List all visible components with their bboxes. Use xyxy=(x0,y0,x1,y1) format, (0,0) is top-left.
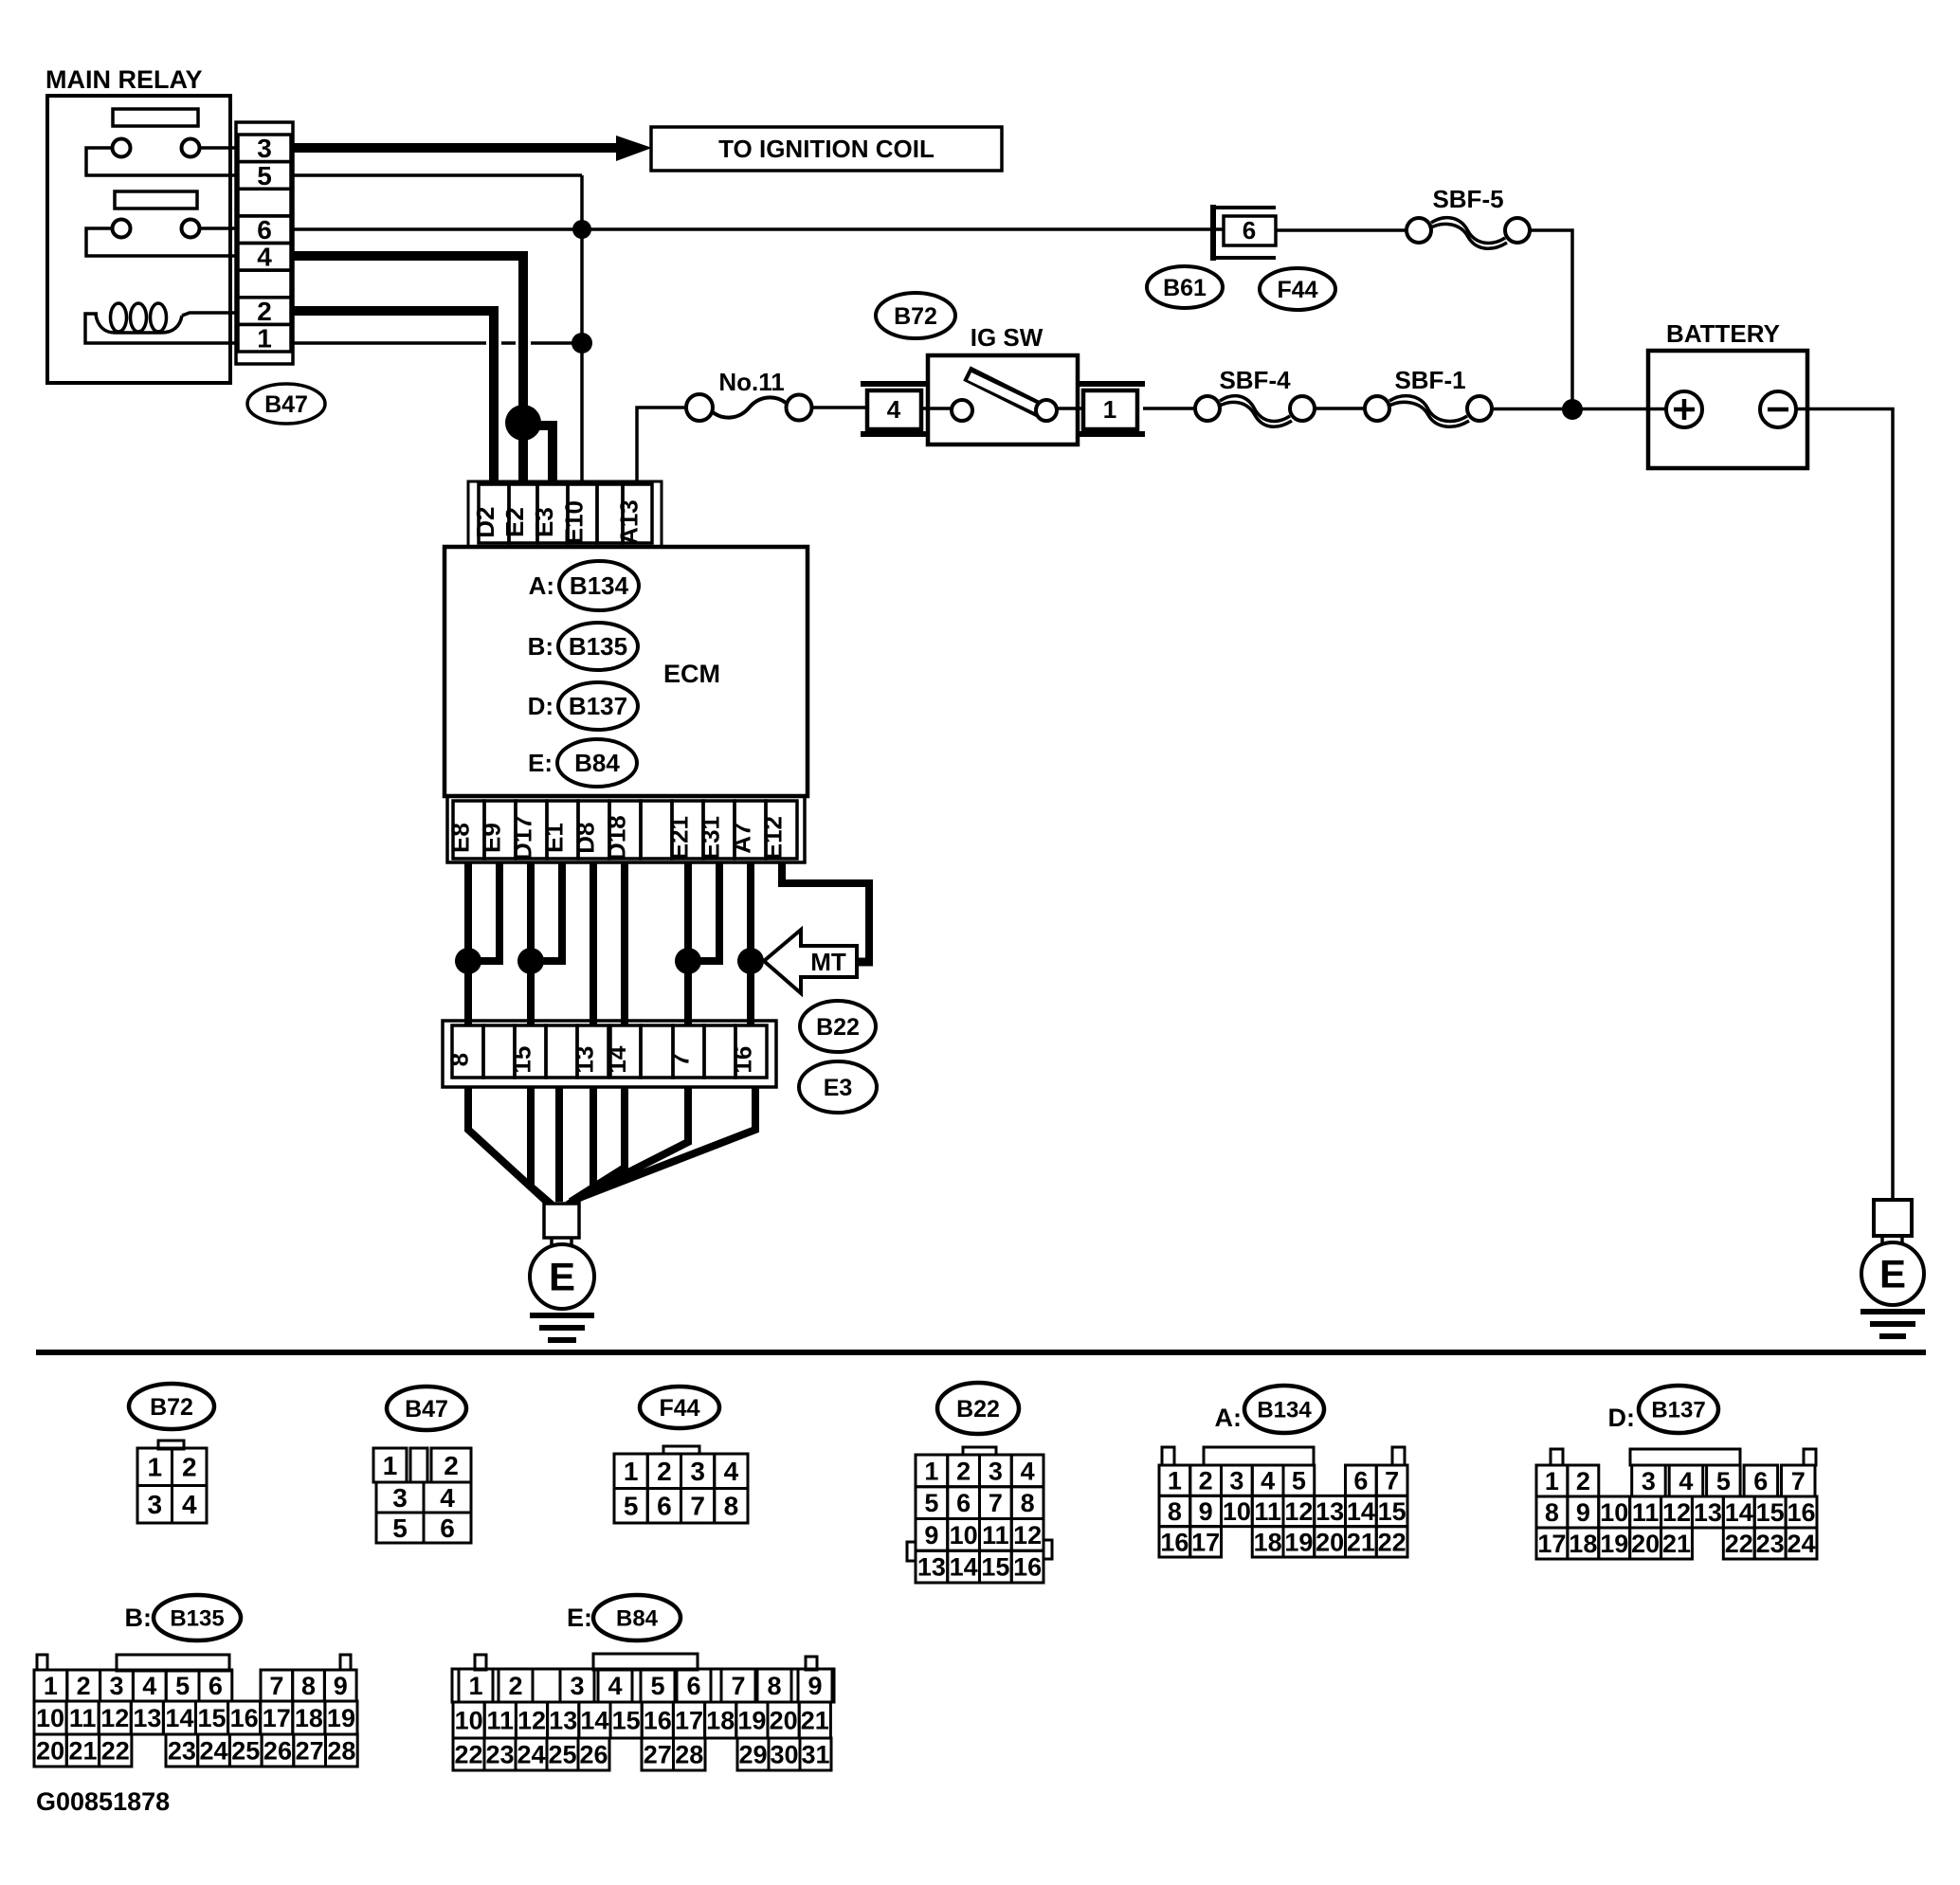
svg-text:18: 18 xyxy=(1569,1530,1597,1558)
wire contact1 right to pin 3 xyxy=(200,146,239,150)
ignition switch box xyxy=(928,355,1078,444)
oval F44 xyxy=(1260,268,1335,310)
fusible link SBF-4 xyxy=(1195,366,1315,426)
ground connector pin blank xyxy=(546,1025,577,1078)
svg-text:14: 14 xyxy=(1347,1497,1375,1526)
fuse No.11 xyxy=(686,368,812,421)
svg-text:17: 17 xyxy=(263,1704,291,1732)
svg-text:12: 12 xyxy=(517,1706,546,1734)
svg-text:3: 3 xyxy=(109,1672,123,1700)
fuse 6 holder bracket xyxy=(1213,205,1276,261)
svg-text:4: 4 xyxy=(440,1483,455,1513)
svg-text:1: 1 xyxy=(383,1451,398,1480)
svg-text:B134: B134 xyxy=(1257,1397,1312,1423)
svg-text:E: E xyxy=(1879,1252,1906,1296)
svg-text:F44: F44 xyxy=(659,1395,699,1422)
svg-text:E21: E21 xyxy=(665,816,694,860)
svg-text:A:: A: xyxy=(1215,1404,1243,1432)
svg-text:20: 20 xyxy=(1631,1530,1660,1558)
ground connector pin 14 xyxy=(603,1025,641,1078)
svg-text:31: 31 xyxy=(801,1740,829,1768)
svg-text:3: 3 xyxy=(257,134,272,163)
svg-text:25: 25 xyxy=(231,1736,260,1765)
relay contact bar 2 xyxy=(115,191,197,208)
figure number xyxy=(36,1787,170,1816)
svg-text:24: 24 xyxy=(517,1740,545,1768)
svg-text:28: 28 xyxy=(675,1740,703,1768)
connector F44 bottom oval xyxy=(640,1387,719,1428)
ECM connector ref A: B134 xyxy=(529,561,639,610)
battery box xyxy=(1648,351,1807,468)
svg-text:2: 2 xyxy=(1199,1467,1213,1495)
relay contact 2 right terminal xyxy=(182,220,200,238)
svg-text:12: 12 xyxy=(1284,1497,1313,1526)
svg-text:10: 10 xyxy=(1600,1498,1628,1527)
svg-text:10: 10 xyxy=(950,1521,978,1550)
ECM bottom connector pin E21 xyxy=(665,801,704,860)
svg-text:10: 10 xyxy=(1223,1497,1251,1526)
oval E3 mid xyxy=(799,1061,877,1113)
svg-text:E31: E31 xyxy=(697,816,725,860)
wire E21 to pin 7 xyxy=(684,862,692,1025)
connector B134 pinout xyxy=(1159,1447,1407,1557)
wire SBF-5 to battery junction xyxy=(1530,230,1572,409)
svg-text:30: 30 xyxy=(770,1740,798,1768)
IG SW terminal 4 bracket xyxy=(861,384,928,434)
wire D17 to pin 15 xyxy=(527,862,535,1025)
svg-text:E8: E8 xyxy=(446,823,475,853)
svg-text:11: 11 xyxy=(982,1521,1009,1550)
ECM connector ref E: B84 xyxy=(528,739,637,787)
wire fuse6 to SBF-5 xyxy=(1276,228,1406,232)
svg-text:2: 2 xyxy=(657,1457,672,1486)
ECM bottom connector pin E31 xyxy=(697,801,735,860)
connector B22 bottom oval xyxy=(937,1383,1019,1434)
svg-text:E:: E: xyxy=(567,1604,592,1632)
ECM bottom connector pin E12 xyxy=(759,801,798,860)
junction node E8/E9 xyxy=(455,948,481,974)
ECM label xyxy=(663,660,720,688)
svg-text:B:: B: xyxy=(528,632,554,661)
svg-text:2: 2 xyxy=(956,1457,971,1485)
svg-text:24: 24 xyxy=(200,1736,228,1765)
ECM bottom connector pin E9 xyxy=(478,801,517,859)
svg-text:5: 5 xyxy=(650,1672,664,1700)
svg-text:7: 7 xyxy=(1791,1467,1806,1495)
ground wire from pin 16 xyxy=(579,1087,755,1198)
wire contact2 right to pin 6 xyxy=(200,227,239,230)
svg-text:14: 14 xyxy=(580,1706,608,1734)
main relay label xyxy=(45,65,203,94)
svg-text:E1: E1 xyxy=(540,823,569,853)
svg-text:B61: B61 xyxy=(1163,275,1207,301)
svg-text:21: 21 xyxy=(68,1736,97,1765)
ECM bottom connector pin A7 xyxy=(728,801,767,859)
wire pin5 horizontal xyxy=(293,173,582,177)
svg-text:8: 8 xyxy=(301,1672,316,1700)
relay contact 1 right terminal xyxy=(182,139,200,157)
svg-text:E12: E12 xyxy=(759,816,788,860)
svg-text:E: E xyxy=(549,1255,575,1299)
connector B137 label xyxy=(1608,1386,1719,1433)
svg-text:D18: D18 xyxy=(603,815,631,861)
wire battery negative to ground xyxy=(1807,409,1893,1201)
oval B22 mid xyxy=(800,1001,876,1052)
junction node E2/E3 branch xyxy=(505,405,541,441)
svg-text:4: 4 xyxy=(887,395,901,424)
svg-text:3: 3 xyxy=(690,1457,705,1486)
svg-text:7: 7 xyxy=(666,1053,695,1066)
oval B61 xyxy=(1147,266,1223,308)
left ground symbol xyxy=(530,1315,594,1340)
svg-text:4: 4 xyxy=(142,1672,156,1700)
ECM bottom connector pin D18 xyxy=(603,801,642,861)
svg-text:23: 23 xyxy=(485,1740,514,1768)
relay connector pin cell 1 xyxy=(238,324,291,353)
svg-text:1: 1 xyxy=(468,1672,482,1700)
svg-text:8: 8 xyxy=(724,1492,739,1521)
svg-text:11: 11 xyxy=(1254,1497,1281,1526)
ECM bottom connector pin blank xyxy=(641,801,672,859)
fusible link SBF-5 xyxy=(1406,185,1530,248)
svg-text:21: 21 xyxy=(1662,1530,1691,1558)
relay connector pin cell 3 xyxy=(238,134,291,163)
wire D8 to pin 13 xyxy=(590,862,597,1025)
svg-text:5: 5 xyxy=(175,1672,190,1700)
wire pin4 thick to E2 xyxy=(486,335,531,351)
connector B72 oval xyxy=(129,1384,214,1429)
svg-text:2: 2 xyxy=(1576,1467,1590,1495)
connector B72 pinout xyxy=(137,1441,207,1523)
fuse 6 box xyxy=(1224,216,1276,245)
svg-text:D8: D8 xyxy=(572,822,600,853)
wire coil right to pin 2 xyxy=(182,313,238,316)
svg-text:E9: E9 xyxy=(478,823,506,853)
svg-text:4: 4 xyxy=(257,243,272,272)
wire pin1 horizontal xyxy=(293,341,582,345)
svg-text:4: 4 xyxy=(724,1457,739,1486)
svg-text:4: 4 xyxy=(1261,1467,1275,1495)
svg-text:6: 6 xyxy=(956,1489,971,1517)
svg-text:16: 16 xyxy=(1160,1528,1189,1556)
svg-text:6: 6 xyxy=(1353,1467,1368,1495)
svg-text:26: 26 xyxy=(263,1736,292,1765)
svg-text:A13: A13 xyxy=(615,499,644,545)
svg-text:D17: D17 xyxy=(509,815,537,861)
svg-text:1: 1 xyxy=(44,1672,58,1700)
svg-text:SBF-5: SBF-5 xyxy=(1432,185,1503,213)
svg-text:2: 2 xyxy=(508,1672,522,1700)
svg-text:B72: B72 xyxy=(150,1394,193,1421)
ground connector pin 8 xyxy=(445,1025,484,1078)
IG SW terminal 1 bracket xyxy=(1078,384,1145,434)
svg-text:A7: A7 xyxy=(728,822,756,853)
wire SBF-4 to SBF-1 xyxy=(1315,407,1365,410)
connector B84 pinout xyxy=(452,1654,834,1770)
right ground symbol xyxy=(1860,1312,1925,1336)
connector B47 oval xyxy=(247,384,325,424)
junction node A7/MT xyxy=(737,948,764,974)
svg-text:1: 1 xyxy=(147,1453,162,1482)
ECM top connector pin A13 xyxy=(615,484,653,545)
relay contact 2 left terminal xyxy=(113,220,131,238)
svg-text:5: 5 xyxy=(1716,1467,1731,1495)
svg-text:SBF-1: SBF-1 xyxy=(1394,366,1465,394)
svg-text:BATTERY: BATTERY xyxy=(1666,319,1780,348)
svg-text:7: 7 xyxy=(269,1672,283,1700)
svg-text:14: 14 xyxy=(165,1704,193,1732)
svg-text:6: 6 xyxy=(440,1513,455,1543)
svg-text:13: 13 xyxy=(549,1706,577,1734)
ground connector pin 16 xyxy=(729,1025,768,1078)
svg-text:B22: B22 xyxy=(816,1014,860,1041)
relay contact 1 left terminal xyxy=(113,139,131,157)
svg-text:8: 8 xyxy=(767,1672,781,1700)
wire pin5 vertical to E10 xyxy=(580,175,584,484)
connector F44 pinout xyxy=(614,1446,748,1523)
ground wire from pin 7 xyxy=(574,1087,688,1200)
connector B134 label xyxy=(1215,1386,1325,1433)
wire coil left to pin 1 xyxy=(85,314,238,343)
svg-text:A:: A: xyxy=(529,571,554,600)
svg-text:17: 17 xyxy=(675,1706,703,1734)
junction node E21/E31 xyxy=(675,948,701,974)
svg-text:B84: B84 xyxy=(574,749,620,777)
right ground terminal box xyxy=(1874,1200,1912,1236)
svg-text:21: 21 xyxy=(801,1706,829,1734)
svg-text:E3: E3 xyxy=(824,1075,853,1101)
svg-text:3: 3 xyxy=(1229,1467,1243,1495)
wire branch to E3 xyxy=(523,426,553,484)
wire pin3 to ignition coil arrow xyxy=(293,136,652,161)
connector B135 label xyxy=(125,1595,242,1640)
svg-text:5: 5 xyxy=(257,161,272,190)
svg-text:15: 15 xyxy=(198,1704,227,1732)
svg-text:3: 3 xyxy=(989,1457,1003,1485)
IG SW contact wires xyxy=(921,407,1083,410)
svg-text:B134: B134 xyxy=(570,571,629,600)
wire SBF-1 to battery xyxy=(1492,408,1666,411)
svg-text:7: 7 xyxy=(1385,1467,1399,1495)
svg-text:9: 9 xyxy=(1576,1498,1590,1527)
svg-text:5: 5 xyxy=(624,1492,639,1521)
IG SW right contact xyxy=(1036,400,1057,421)
svg-text:15: 15 xyxy=(508,1046,536,1074)
svg-text:22: 22 xyxy=(454,1740,482,1768)
ground wire from pin 15 xyxy=(531,1087,552,1205)
svg-text:19: 19 xyxy=(1284,1528,1313,1556)
svg-text:13: 13 xyxy=(571,1046,599,1074)
relay contact bar 1 xyxy=(113,109,198,126)
ECM bottom connector outer xyxy=(447,796,805,862)
svg-text:23: 23 xyxy=(1756,1530,1785,1558)
ground wire from pin 13 xyxy=(568,1087,593,1205)
svg-text:12: 12 xyxy=(1013,1521,1042,1550)
IG SW left contact xyxy=(952,400,972,421)
svg-text:25: 25 xyxy=(548,1740,576,1768)
oval B72 xyxy=(876,293,955,338)
svg-text:1: 1 xyxy=(1545,1467,1559,1495)
svg-text:8: 8 xyxy=(1545,1498,1559,1527)
svg-text:B84: B84 xyxy=(616,1605,659,1631)
svg-text:SBF-4: SBF-4 xyxy=(1219,366,1291,394)
svg-text:27: 27 xyxy=(296,1736,324,1765)
wire E1 joins D17 xyxy=(531,862,562,961)
svg-text:19: 19 xyxy=(737,1706,766,1734)
ECM top connector pin D2 xyxy=(471,484,509,543)
svg-text:26: 26 xyxy=(579,1740,608,1768)
ECM connector ref D: B137 xyxy=(528,682,638,730)
left ground neck xyxy=(552,1238,572,1247)
svg-text:B135: B135 xyxy=(170,1605,224,1631)
left ground circle E xyxy=(530,1244,594,1309)
junction node D17/E1 xyxy=(517,948,544,974)
svg-text:15: 15 xyxy=(1756,1498,1785,1527)
IG SW terminal 4 box xyxy=(867,390,921,429)
svg-text:23: 23 xyxy=(168,1736,196,1765)
svg-text:28: 28 xyxy=(327,1736,355,1765)
ground wire from mid xyxy=(555,1087,563,1202)
connector B47 pinout xyxy=(373,1448,471,1543)
ECM connector ref B: B135 xyxy=(528,623,638,670)
wire No.11 to IG SW terminal 4 xyxy=(812,406,868,409)
svg-text:5: 5 xyxy=(1292,1467,1306,1495)
relay connector pin cell 6 xyxy=(238,215,291,245)
relay connector pin cell blank xyxy=(238,270,291,298)
svg-text:2: 2 xyxy=(257,297,272,326)
ground connector pin 7 xyxy=(666,1025,705,1078)
wire E8 to pin 8 xyxy=(464,862,472,1025)
connector B47 bottom oval xyxy=(387,1387,466,1430)
ground connector outer xyxy=(443,1021,776,1087)
relay connector pin cell 5 xyxy=(238,161,291,190)
svg-text:2: 2 xyxy=(182,1453,197,1482)
svg-text:3: 3 xyxy=(147,1490,162,1519)
svg-text:27: 27 xyxy=(644,1740,672,1768)
wire contact1 left to pin 5 xyxy=(86,148,238,175)
ECM top connector pin blank xyxy=(597,484,623,543)
ground connector pin blank xyxy=(483,1025,515,1078)
svg-text:B:: B: xyxy=(125,1604,153,1632)
svg-text:B47: B47 xyxy=(264,391,308,418)
svg-text:10: 10 xyxy=(36,1704,64,1732)
svg-text:F44: F44 xyxy=(1277,277,1317,303)
fusible link SBF-1 xyxy=(1365,366,1492,426)
svg-text:TO IGNITION COIL: TO IGNITION COIL xyxy=(718,135,935,163)
wire A13 corner to fuse No.11 xyxy=(637,408,686,484)
svg-text:8: 8 xyxy=(1021,1489,1035,1517)
wire E9 joins E8 xyxy=(468,862,499,961)
svg-text:14: 14 xyxy=(603,1045,631,1073)
svg-text:21: 21 xyxy=(1347,1528,1375,1556)
ECM top connector pin E2 xyxy=(500,484,537,543)
svg-text:18: 18 xyxy=(1254,1528,1282,1556)
svg-text:12: 12 xyxy=(1662,1498,1691,1527)
wire A7 to pin 16 xyxy=(747,862,754,1025)
ECM bottom connector pin D17 xyxy=(509,801,548,861)
svg-text:9: 9 xyxy=(808,1672,822,1700)
svg-text:13: 13 xyxy=(1316,1497,1344,1526)
svg-text:4: 4 xyxy=(608,1672,622,1700)
ground terminal box xyxy=(544,1204,579,1238)
right ground neck xyxy=(1882,1236,1902,1245)
junction node pin5/pin1 xyxy=(572,333,592,353)
ground wire from pin 8 xyxy=(468,1087,547,1202)
svg-text:11: 11 xyxy=(487,1706,515,1734)
svg-text:B22: B22 xyxy=(956,1396,1000,1423)
svg-text:E10: E10 xyxy=(560,500,589,544)
svg-text:5: 5 xyxy=(924,1489,938,1517)
connector B135 pinout xyxy=(34,1655,357,1767)
ground connector pin 13 xyxy=(571,1025,609,1078)
svg-text:1: 1 xyxy=(257,324,272,353)
svg-text:16: 16 xyxy=(644,1706,672,1734)
ECM bottom connector pin D8 xyxy=(572,801,610,859)
relay connector pin cell blank xyxy=(238,189,291,216)
svg-text:1: 1 xyxy=(1168,1467,1182,1495)
svg-text:7: 7 xyxy=(690,1492,705,1521)
wire pin2 thick to D2 xyxy=(293,311,494,484)
separator line xyxy=(36,1350,1926,1355)
svg-text:13: 13 xyxy=(917,1553,946,1582)
svg-text:2: 2 xyxy=(444,1451,459,1480)
svg-text:9: 9 xyxy=(1199,1497,1213,1526)
svg-text:24: 24 xyxy=(1788,1530,1816,1558)
IG SW blade xyxy=(967,373,1044,412)
svg-text:1: 1 xyxy=(1103,395,1116,424)
wire pin6 bus to fuse 6 xyxy=(293,227,1224,231)
svg-text:IG SW: IG SW xyxy=(971,323,1044,352)
ECM top connector pin E3 xyxy=(530,484,568,543)
svg-text:1: 1 xyxy=(924,1457,938,1485)
svg-text:19: 19 xyxy=(327,1704,355,1732)
svg-text:18: 18 xyxy=(706,1706,735,1734)
svg-text:MAIN RELAY: MAIN RELAY xyxy=(45,65,203,94)
svg-text:E2: E2 xyxy=(500,507,529,537)
svg-text:14: 14 xyxy=(950,1553,978,1582)
wire E12 to MT arrow xyxy=(782,862,873,962)
connector B22 pinout xyxy=(907,1447,1052,1583)
svg-text:B135: B135 xyxy=(569,632,627,661)
svg-text:12: 12 xyxy=(100,1704,129,1732)
svg-text:29: 29 xyxy=(738,1740,767,1768)
svg-text:20: 20 xyxy=(1316,1528,1344,1556)
svg-text:11: 11 xyxy=(1632,1498,1660,1527)
svg-text:13: 13 xyxy=(133,1704,161,1732)
svg-text:D2: D2 xyxy=(471,506,499,537)
wire contact2 left to pin 4 xyxy=(86,228,238,256)
ECM bottom connector pin E8 xyxy=(446,801,485,859)
ground connector pin 15 xyxy=(508,1025,547,1078)
junction node battery feed xyxy=(1562,399,1583,420)
svg-text:3: 3 xyxy=(392,1483,408,1513)
svg-text:22: 22 xyxy=(101,1736,130,1765)
svg-text:4: 4 xyxy=(1679,1467,1693,1495)
IG SW label xyxy=(971,323,1044,352)
ECM top connector pin E10 xyxy=(560,484,598,544)
svg-text:8: 8 xyxy=(445,1053,474,1066)
svg-text:6: 6 xyxy=(1753,1467,1768,1495)
svg-text:9: 9 xyxy=(334,1672,348,1700)
svg-text:6: 6 xyxy=(1243,216,1256,245)
svg-text:5: 5 xyxy=(392,1513,408,1543)
wire terminal1 to SBF-4 xyxy=(1143,407,1195,410)
svg-text:16: 16 xyxy=(1013,1553,1042,1582)
svg-text:E:: E: xyxy=(528,749,553,777)
connector B137 pinout xyxy=(1536,1449,1817,1559)
ECM top connector outer xyxy=(468,481,662,547)
svg-text:17: 17 xyxy=(1191,1528,1220,1556)
